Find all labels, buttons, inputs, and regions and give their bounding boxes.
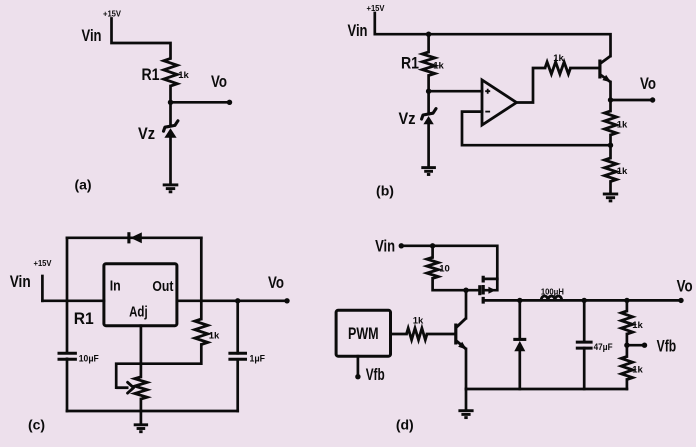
caption (d) — [396, 416, 414, 432]
value 100uH (d) — [541, 287, 564, 296]
ground (b) left — [421, 168, 436, 175]
svg-text:(c): (c) — [28, 416, 45, 432]
transistor Q1 emitter (b) — [600, 74, 613, 85]
node Vfb terminal below PWM (d) — [355, 374, 360, 379]
op-amp plus sign (b) — [485, 89, 490, 94]
wire Out to Vo terminal (c) — [177, 299, 287, 302]
wire zener to ground (a) — [169, 138, 172, 185]
svg-text:(d): (d) — [396, 416, 414, 432]
wire emitter to Vo node (b) — [609, 82, 612, 111]
wire rail to resistor 10 (d) — [431, 246, 434, 258]
value 1k of R1 (a) — [178, 70, 189, 81]
capacitor 10uF (c) — [58, 353, 77, 359]
wire left loop vertical upper (c) — [66, 238, 69, 353]
label Vin (c) — [10, 272, 31, 291]
wire gate node to collector (d) — [465, 290, 468, 318]
transistor Q1 base bar (d) — [454, 324, 457, 345]
transistor Q1 base bar (b) — [598, 60, 601, 79]
svg-text:1μF: 1μF — [250, 354, 266, 365]
label R1 (b) — [401, 54, 419, 73]
mosfet M1 gate bar (d) — [478, 285, 481, 295]
wire to Vfb terminal (d) — [627, 344, 645, 347]
svg-text:Vfb: Vfb — [366, 365, 385, 384]
svg-text:10: 10 — [439, 264, 450, 275]
node Vo terminal (c) — [284, 298, 289, 303]
svg-text:Out: Out — [152, 279, 173, 295]
transistor Q1 collector (d) — [456, 318, 466, 328]
mosfet M1 channel bars (d) — [482, 276, 485, 304]
svg-text:Vo: Vo — [268, 273, 284, 292]
label Vz (a) — [138, 124, 155, 143]
label Vo (c) — [268, 273, 284, 292]
svg-text:R1: R1 — [401, 54, 419, 73]
resistor 1k upper divider (d) — [621, 311, 632, 334]
wire Vin rail to mosfet drain (d) — [401, 246, 497, 290]
resistor 1k base (b) — [545, 62, 571, 74]
wire R1 to zener (b) — [427, 76, 430, 115]
wire ground stub (c) — [140, 411, 143, 424]
value 1k base (d) — [413, 316, 424, 327]
svg-text:1k: 1k — [413, 316, 424, 327]
node Vo junction (b) — [608, 97, 613, 102]
wire ground stub (d) — [465, 389, 468, 410]
svg-text:10μF: 10μF — [79, 354, 99, 365]
wire zener to ground (b) — [427, 124, 430, 167]
resistor R1 (b) — [422, 52, 435, 76]
svg-text:Vo: Vo — [211, 72, 227, 91]
label Vo (d) — [677, 277, 693, 296]
zener diode Vz (a) — [164, 121, 178, 138]
resistor 1k upper divider (b) — [605, 111, 617, 135]
wire Adj pin down (c) — [140, 326, 143, 377]
svg-text:1k: 1k — [632, 365, 643, 376]
wire +15V stub to R1 top (a) — [112, 19, 171, 59]
svg-text:Vin: Vin — [375, 237, 395, 256]
diode D1 freewheel (d) — [513, 300, 526, 389]
capacitor 1uF (c) — [228, 353, 247, 359]
value 1k of R1 (b) — [433, 61, 444, 72]
caption (a) — [74, 176, 91, 192]
wire resistor 10 to gate (d) — [433, 278, 479, 290]
node Vfb terminal (d) — [642, 343, 647, 348]
potentiometer wiper arrow (c) — [116, 382, 133, 393]
wire op-amp output to base resistor (b) — [517, 68, 546, 103]
svg-text:1k: 1k — [632, 320, 643, 331]
node divider junction (d) — [624, 298, 629, 303]
wire switch node line (d) — [483, 299, 681, 302]
op-amp U1 (b) — [482, 80, 517, 125]
svg-text:R1: R1 — [74, 309, 94, 328]
svg-text:1k: 1k — [433, 61, 444, 72]
transistor Q1 emitter (d) — [456, 340, 469, 352]
wire resistor to base (d) — [427, 333, 454, 336]
diode D1 bypass (c) — [129, 232, 142, 243]
label Vo (a) — [211, 72, 227, 91]
label PWM (d) — [348, 325, 379, 343]
value 1k upper (d) — [632, 320, 643, 331]
resistor R1 (a) — [164, 58, 178, 86]
label Vfb below PWM (d) — [366, 365, 385, 384]
svg-text:(b): (b) — [376, 183, 394, 199]
node plus-input junction (b) — [426, 89, 431, 94]
caption (c) — [28, 416, 45, 432]
resistor 1k lower divider (b) — [605, 158, 617, 182]
pin label Out (c) — [152, 279, 173, 295]
wire resistor to base (b) — [571, 67, 599, 70]
wire divider to rail (d) — [626, 380, 629, 390]
wire divider middle (d) — [626, 334, 629, 357]
svg-text:Vz: Vz — [399, 109, 416, 128]
ground (c) — [134, 425, 148, 432]
node diode junction (d) — [517, 298, 522, 303]
pin label Adj (c) — [129, 305, 148, 321]
wire right loop vertical (c) — [200, 238, 203, 319]
wire to Vo terminal (b) — [611, 99, 653, 102]
power rail +15V label (b) — [367, 4, 386, 13]
wire to Vo terminal (a) — [171, 101, 230, 104]
wire junction to op-amp plus input (b) — [429, 90, 482, 93]
wire Vin to regulator In (c) — [42, 299, 104, 302]
mosfet M1 drain stub (d) — [483, 278, 497, 281]
svg-text:1k: 1k — [617, 166, 628, 177]
node 1uF junction (c) — [235, 298, 240, 303]
ground (a) — [163, 185, 179, 192]
svg-text:1k: 1k — [209, 331, 220, 342]
svg-text:Vo: Vo — [640, 74, 656, 93]
PWM controller box (d) — [336, 310, 390, 356]
wire feedback to minus input (b) — [462, 112, 611, 146]
power +15V label (c) — [34, 259, 53, 268]
svg-text:Vz: Vz — [138, 124, 155, 143]
ground (d) — [458, 411, 473, 418]
inductor 100uH (d) — [541, 296, 562, 300]
wire rail to R1 (b) — [427, 34, 430, 52]
label Vin (d) — [375, 237, 395, 256]
svg-text:1k: 1k — [553, 53, 564, 64]
svg-text:Vo: Vo — [677, 277, 693, 296]
wire +15V stub (c) — [41, 276, 44, 301]
label Vz (b) — [399, 109, 416, 128]
node gate drive junction (d) — [463, 288, 468, 293]
label R1 (a) — [142, 65, 160, 84]
transistor Q1 collector (b) — [600, 56, 611, 64]
svg-text:1k: 1k — [617, 120, 628, 131]
svg-text:PWM: PWM — [348, 325, 379, 343]
wire 1uF top (c) — [236, 301, 239, 354]
label Vin (a) — [82, 26, 102, 45]
label Vo (b) — [640, 74, 656, 93]
op-amp minus sign (b) — [485, 111, 490, 113]
resistor 1k (c) — [195, 319, 208, 345]
pin label In (c) — [110, 278, 121, 294]
resistor 1k lower divider (d) — [621, 357, 632, 380]
capacitor 47uF (d) — [576, 300, 593, 389]
node Vin terminal (d) — [399, 243, 404, 248]
wire emitter to rail (d) — [465, 349, 468, 389]
node Vo terminal (d) — [678, 298, 683, 303]
svg-text:Vin: Vin — [82, 26, 102, 45]
wire R1 to zener (a) — [169, 86, 172, 126]
label R1 (c) — [74, 309, 94, 328]
wire +15V rail to collector (b) — [375, 13, 611, 56]
value 10uF (c) — [79, 354, 99, 365]
value 1k (c) — [209, 331, 220, 342]
node output junction (a) — [168, 100, 173, 105]
wire bottom rail (d) — [466, 388, 627, 391]
value 1k lower divider (b) — [617, 166, 628, 177]
node Vo terminal (a) — [227, 100, 232, 105]
value 47uF (d) — [594, 342, 613, 353]
node Vfb junction (d) — [624, 343, 629, 348]
value 1uF (c) — [250, 354, 266, 365]
node capacitor junction (d) — [582, 298, 587, 303]
caption (b) — [376, 183, 394, 199]
mosfet M1 body arrow (d) — [483, 287, 497, 294]
wire left loop vertical lower (c) — [66, 359, 69, 411]
wire bottom rail (c) — [67, 410, 238, 413]
svg-text:(a): (a) — [74, 176, 91, 192]
wire pot to bottom rail (c) — [140, 399, 143, 411]
wire Vfb stub below PWM (d) — [357, 356, 360, 377]
svg-text:100μH: 100μH — [541, 287, 564, 296]
svg-text:In: In — [110, 278, 121, 294]
wire top diode loop (c) — [67, 236, 201, 239]
resistor 10 gate pullup (d) — [427, 257, 438, 278]
ground (b) right — [603, 194, 618, 201]
svg-text:47μF: 47μF — [594, 342, 613, 353]
svg-text:R1: R1 — [142, 65, 160, 84]
regulator U1 body (c) — [104, 264, 177, 326]
node Vo terminal (b) — [650, 97, 655, 102]
svg-text:Vin: Vin — [348, 21, 368, 40]
value 1k base resistor (b) — [553, 53, 564, 64]
value 1k upper divider (b) — [617, 120, 628, 131]
value 1k lower (d) — [632, 365, 643, 376]
node 10ohm junction (d) — [430, 243, 435, 248]
value 10 (d) — [439, 264, 450, 275]
resistor 1k base (d) — [407, 328, 428, 340]
zener diode Vz (b) — [422, 109, 436, 125]
wire divider middle (b) — [609, 135, 612, 158]
potentiometer body (c) — [135, 377, 147, 399]
svg-text:Adj: Adj — [129, 305, 148, 321]
label Vfb right (d) — [657, 336, 677, 355]
svg-text:Vfb: Vfb — [657, 336, 677, 355]
svg-text:1k: 1k — [178, 70, 189, 81]
wire divider top (d) — [626, 300, 629, 311]
wire divider to ground (b) — [609, 182, 612, 194]
wire 1uF bottom (c) — [236, 359, 239, 411]
wire PWM output (d) — [391, 333, 407, 336]
power rail +15V label (a) — [103, 10, 122, 19]
wire 1k to wiper (c) — [116, 345, 201, 388]
node feedback junction (b) — [608, 143, 613, 148]
svg-text:+15V: +15V — [34, 259, 53, 268]
svg-text:Vin: Vin — [10, 272, 31, 291]
node rail R1 junction (b) — [426, 32, 431, 37]
label Vin (b) — [348, 21, 368, 40]
